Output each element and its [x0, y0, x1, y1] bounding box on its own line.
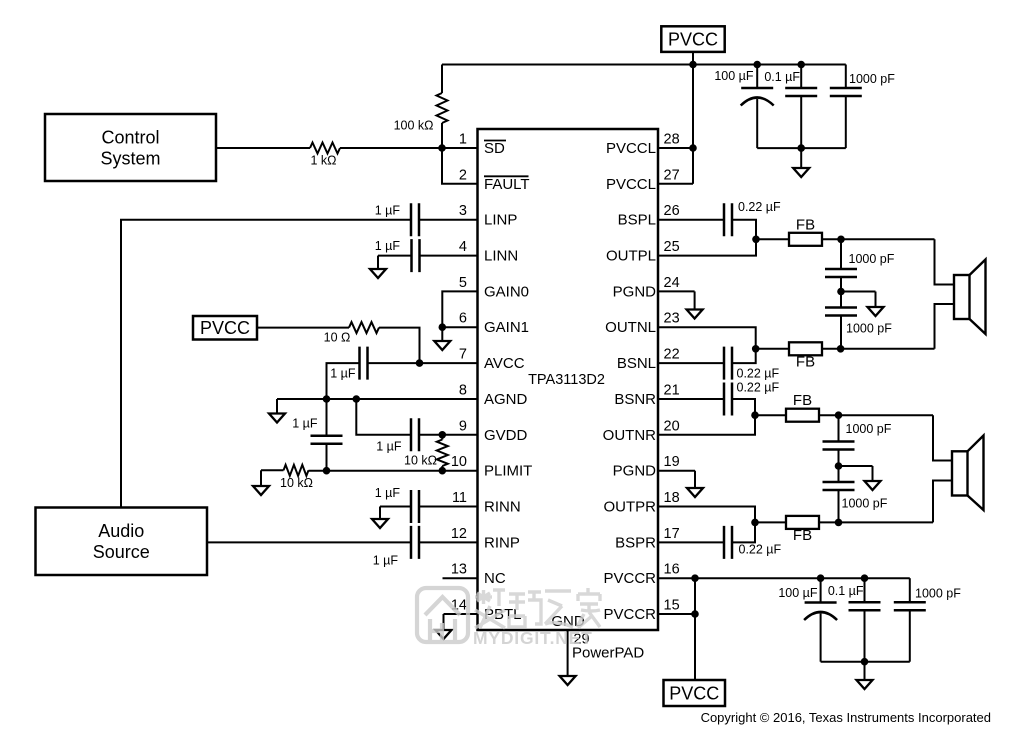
capacitor 1 &#181;F (RINN input) [375, 486, 419, 523]
svg-text:0.22 µF: 0.22 µF [737, 381, 780, 395]
capacitor 1000 pF (OUTNL snubber) [825, 308, 892, 336]
svg-text:1000 pF: 1000 pF [842, 497, 888, 511]
junction rail / 100uF [753, 61, 761, 69]
junction PVCCL node [689, 144, 697, 152]
svg-text:BSNL: BSNL [617, 355, 656, 372]
capacitor 100 &#181;F (PVCCR bulk) [778, 586, 837, 620]
wire 1000pF top stem [845, 65, 847, 89]
junction GVDD node [439, 431, 447, 439]
ground (GAIN pins) [434, 327, 450, 350]
capacitor 1000 pF (OUTPR snubber) [823, 482, 888, 511]
wire FB to snubber junction [822, 238, 935, 240]
svg-text:PVCCR: PVCCR [603, 570, 656, 587]
svg-text:OUTNL: OUTNL [605, 319, 656, 336]
svg-text:FB: FB [793, 392, 812, 409]
junction OUTNL / snubber [837, 345, 845, 353]
svg-text:13: 13 [451, 562, 467, 578]
svg-text:Audio: Audio [98, 521, 144, 541]
wire GVDD cap to pin 9 [419, 434, 478, 436]
svg-text:11: 11 [452, 490, 467, 506]
wire pin 20 OUTNR [658, 415, 755, 435]
wire PVCC flag stem [692, 52, 694, 65]
wire 0.1uF bottom stem [800, 96, 802, 148]
wire R snubber mid to ground [839, 465, 873, 467]
junction OUTNR / snubber [835, 411, 843, 419]
svg-text:PVCCR: PVCCR [603, 606, 656, 623]
junction AGND / 1uF branch [323, 395, 331, 403]
svg-text:100 µF: 100 µF [778, 586, 818, 600]
right channel speaker [952, 436, 984, 511]
wire FB to speaker wire (OUTPR) [819, 521, 933, 523]
svg-text:PVCC: PVCC [200, 318, 250, 338]
wire pin 22 BSNL to cap [658, 362, 724, 364]
wire pin 18 OUTPR [658, 507, 755, 523]
wire LINN cap to ground stub [378, 255, 412, 257]
wire BSNR cap to OUTNR node [732, 399, 755, 415]
junction OUTPL / snubber [837, 236, 845, 244]
wire pin 15 PVCCR [658, 613, 695, 615]
wire pin 12 RINP to cap [419, 541, 478, 543]
svg-text:BSPL: BSPL [618, 212, 656, 229]
svg-text:System: System [100, 148, 160, 168]
wire pin 28 PVCCL [658, 147, 693, 149]
wire 1000pF top stem (R) [909, 578, 911, 602]
wire decoupling bottom rail (R) [821, 661, 910, 663]
svg-text:100 µF: 100 µF [714, 69, 754, 83]
svg-text:TPA3113D2: TPA3113D2 [528, 372, 605, 388]
svg-text:3: 3 [459, 203, 467, 219]
svg-text:8: 8 [459, 383, 467, 399]
junction pin 15 / vertical [691, 610, 699, 618]
svg-text:PGND: PGND [613, 283, 657, 300]
junction PVCCR / 0.1uF [861, 574, 869, 582]
wire OUTPR to right speaker - [933, 481, 952, 523]
svg-text:15: 15 [664, 598, 680, 614]
junction GAIN0/GAIN1 [439, 323, 447, 331]
wire 0.1uF top stem (R) [864, 578, 866, 602]
Control System block [45, 114, 216, 181]
wire pin 17 BSPR to cap [658, 541, 724, 543]
wire RINN cap to ground stub [380, 506, 411, 508]
svg-text:OUTPL: OUTPL [606, 248, 656, 265]
wire PVCC vertical to PVCCL pins [692, 65, 694, 184]
junction PVCCR / 100uF [817, 574, 825, 582]
svg-text:0.22 µF: 0.22 µF [739, 543, 782, 557]
svg-text:FAULT: FAULT [484, 176, 530, 193]
svg-text:1 µF: 1 µF [373, 554, 399, 568]
svg-text:PVCCL: PVCCL [606, 176, 656, 193]
resistor 10 k&#937; (PLIMIT divider lower) [280, 465, 313, 490]
wire Control System to R 1k (pin 1 net) [216, 147, 310, 149]
junction OUTPR / snubber [835, 519, 843, 527]
wire R10k top stub [441, 435, 443, 440]
ground (PGND pin 19) [687, 471, 703, 497]
wire junction up to R 100k [441, 123, 443, 148]
capacitor 1 &#181;F (LINP input) [375, 203, 419, 236]
watermark MYDIGIT logo [417, 588, 468, 642]
svg-text:RINP: RINP [484, 534, 520, 551]
svg-text:FB: FB [796, 216, 815, 233]
svg-text:10 kΩ: 10 kΩ [404, 454, 437, 468]
capacitor 1000 pF (PVCCR) [894, 587, 961, 611]
ground (PowerPAD pin 29) [560, 630, 576, 685]
wire R 10 to AVCC junction [379, 328, 420, 364]
wire 100uF top stem (R) [820, 578, 822, 602]
capacitor 1 &#181;F (GVDD/PLIMIT filter) [292, 417, 342, 444]
wire pin 24 PGND [658, 290, 695, 292]
svg-text:23: 23 [664, 311, 680, 327]
svg-text:24: 24 [664, 275, 680, 291]
ground (PLIMIT) [253, 470, 269, 495]
wire OUTNL to left speaker - [935, 304, 955, 349]
ferrite bead FB (OUTPL) [789, 216, 822, 246]
svg-text:Copyright © 2016, Texas Instru: Copyright © 2016, Texas Instruments Inco… [701, 710, 991, 725]
wire 0.1uF top stem [800, 65, 802, 89]
wire pin 25 OUTPL [658, 239, 756, 255]
svg-text:0.22 µF: 0.22 µF [738, 200, 781, 214]
svg-text:1000 pF: 1000 pF [846, 322, 892, 336]
wire OUTNR node to FB [755, 414, 786, 416]
svg-text:1000 pF: 1000 pF [846, 422, 892, 436]
wire BSNL cap to OUTNL node [732, 349, 756, 363]
svg-text:0.1 µF: 0.1 µF [764, 70, 800, 84]
junction OUTPL node [752, 236, 760, 244]
capacitor 1 &#181;F (AVCC decoupling) [330, 347, 367, 381]
resistor 10 &#937; (AVCC filter) [324, 322, 379, 344]
svg-text:LINN: LINN [484, 248, 518, 265]
wire R 1k to pin 1 SD [340, 147, 478, 149]
svg-text:5: 5 [459, 275, 467, 291]
svg-text:1 µF: 1 µF [375, 486, 401, 500]
op-amp / class-D amplifier IC U1 TPA3113D2 body [478, 129, 659, 630]
svg-text:MYDIGIT.NET: MYDIGIT.NET [473, 628, 593, 648]
wire BSPR cap to OUTPR node [732, 522, 755, 542]
wire R snubber mid stem [838, 450, 840, 483]
wire pin 8 AGND [277, 398, 478, 400]
wire AGND junction down to cap [326, 399, 328, 436]
svg-text:6: 6 [459, 311, 467, 327]
svg-text:21: 21 [664, 383, 680, 399]
svg-text:1 µF: 1 µF [292, 417, 318, 431]
wire AVCC cap to AGND junction [327, 363, 360, 399]
junction rail / 0.1uF [797, 61, 805, 69]
junction R10k / PLIMIT line [439, 467, 447, 475]
capacitor 0.22 &#181;F (BSNL bootstrap) [724, 347, 780, 381]
svg-text:19: 19 [664, 454, 680, 470]
left channel speaker [954, 260, 986, 335]
capacitor 0.22 &#181;F (BSNR bootstrap) [724, 381, 780, 416]
svg-text:PVCC: PVCC [668, 29, 718, 49]
svg-text:18: 18 [664, 490, 680, 506]
wire top PVCC rail [442, 64, 846, 66]
PVCC supply flag (top) [661, 26, 724, 52]
wire snubber mid stem [840, 277, 842, 308]
ground (LINN) [370, 256, 386, 278]
svg-text:17: 17 [664, 526, 680, 542]
Audio Source block [36, 508, 208, 576]
svg-text:Source: Source [93, 542, 150, 562]
junction OUTNL node [752, 345, 760, 353]
capacitor 0.22 &#181;F (BSPR bootstrap) [724, 526, 782, 559]
wire pin 4 LINN to cap [420, 255, 478, 257]
wire pin 16 PVCCR rail [658, 577, 910, 579]
wire pin 3 LINP to cap [419, 219, 478, 221]
junction AGND / GVDD branch [353, 395, 361, 403]
wire OUTNL node to FB [756, 348, 789, 350]
svg-text:20: 20 [664, 418, 680, 434]
ground (PGND pin 24) [687, 291, 703, 318]
PVCC supply flag (left) [193, 316, 257, 340]
svg-text:0.1 µF: 0.1 µF [828, 584, 864, 598]
svg-text:12: 12 [451, 526, 467, 542]
wire pin 14 PBTL [444, 613, 478, 615]
wire FB to speaker wire (OUTNL) [822, 348, 935, 350]
svg-text:NC: NC [484, 570, 506, 587]
wire R10k bottom stub [441, 466, 443, 471]
wire 1000pF bottom stem (R) [909, 610, 911, 661]
svg-text:LINP: LINP [484, 212, 517, 229]
svg-text:1 µF: 1 µF [330, 367, 356, 381]
svg-text:4: 4 [459, 239, 467, 255]
wire RINP cap to Audio Source [207, 541, 411, 543]
svg-text:28: 28 [664, 132, 680, 148]
ground (RINN) [372, 507, 388, 529]
ground (L snubber) [868, 292, 884, 317]
svg-text:26: 26 [664, 203, 680, 219]
svg-text:GAIN0: GAIN0 [484, 283, 529, 300]
svg-text:100 kΩ: 100 kΩ [394, 119, 434, 133]
svg-text:1: 1 [459, 132, 467, 148]
wire cap down to PLIMIT line [326, 444, 328, 471]
capacitor 0.1 &#181;F (PVCCL) [764, 70, 817, 96]
capacitor 1 &#181;F (GVDD) [376, 418, 419, 453]
wire 100uF top stem [756, 65, 758, 89]
svg-text:1000 pF: 1000 pF [849, 72, 895, 86]
capacitor 1000 pF (PVCCL) [830, 72, 895, 96]
ground (PVCCL decoupling) [793, 148, 809, 177]
svg-text:0.22 µF: 0.22 µF [737, 367, 780, 381]
resistor 10 k&#937; (PLIMIT divider upper) [404, 440, 448, 468]
svg-text:1 kΩ: 1 kΩ [310, 154, 336, 168]
wire R snubber top stem [838, 415, 840, 441]
svg-text:PVCCL: PVCCL [606, 140, 656, 157]
svg-text:10 kΩ: 10 kΩ [280, 476, 313, 490]
svg-text:10 Ω: 10 Ω [324, 331, 351, 345]
svg-text:FB: FB [793, 527, 812, 544]
svg-text:GAIN1: GAIN1 [484, 319, 529, 336]
ferrite bead FB (OUTNR) [786, 392, 819, 422]
svg-text:22: 22 [664, 347, 680, 363]
svg-text:25: 25 [664, 239, 680, 255]
pin 1 SD active-low overline [484, 140, 506, 142]
svg-text:BSNR: BSNR [614, 391, 656, 408]
svg-text:9: 9 [459, 418, 467, 434]
junction cap / PLIMIT line [323, 467, 331, 475]
wire pin 10 PLIMIT [309, 470, 478, 472]
wire R 100k to PVCC rail [441, 65, 443, 94]
svg-text:OUTPR: OUTPR [604, 499, 657, 516]
wire 100uF bottom stem [756, 99, 758, 148]
capacitor 1000 pF (OUTNR snubber) [823, 422, 892, 450]
junction snubber mid [837, 288, 845, 296]
junction AVCC node [416, 359, 424, 367]
wire OUTNR to right speaker + [933, 415, 952, 460]
pin 2 FAULT active-low overline [484, 175, 529, 177]
PVCC supply flag (bottom) [664, 680, 726, 706]
svg-text:PVCC: PVCC [669, 683, 719, 703]
wire snubber top stem [840, 239, 842, 269]
wire PVCCR vertical to PVCC flag [694, 578, 696, 680]
junction OUTNR node [751, 411, 759, 419]
wire pin 19 PGND [658, 470, 695, 472]
wire pin 2 FAULT to junction [442, 148, 478, 184]
wire R snubber bottom stem [838, 490, 840, 522]
ground (PVCCR decoupling) [857, 662, 873, 689]
svg-text:10: 10 [451, 454, 467, 470]
wire pin 6 GAIN1 [442, 326, 477, 328]
svg-text:PLIMIT: PLIMIT [484, 463, 532, 480]
wire decoupling bottom rail [757, 147, 846, 149]
capacitor 0.22 &#181;F (BSPL bootstrap) [724, 200, 781, 236]
wire R10k to ground stub [261, 469, 284, 471]
capacitor 1000 pF (OUTPL snubber) [825, 252, 895, 277]
capacitor 100 &#181;F (PVCCL bulk) [714, 69, 773, 106]
ground (PBTL) [436, 614, 452, 639]
capacitor 1 &#181;F (LINN input) [375, 239, 420, 272]
wire pin 27 PVCCL [658, 183, 693, 185]
watermark chinese characters (shu ma zhi jia) [475, 588, 600, 628]
wire 100uF bottom stem (R) [820, 614, 822, 662]
wire OUTPL to left speaker + [935, 239, 955, 284]
wire pin 23 OUTNL [658, 327, 756, 349]
svg-text:FB: FB [796, 353, 815, 370]
wire AGND branch to GVDD cap [356, 399, 411, 435]
wire pin 11 RINN to cap [419, 506, 478, 508]
ferrite bead FB (OUTPR) [786, 516, 819, 544]
svg-text:AGND: AGND [484, 391, 528, 408]
wire LINP cap to audio left vertical [121, 220, 411, 508]
junction bottom rail / ground (R) [861, 658, 869, 666]
svg-text:27: 27 [664, 167, 680, 183]
svg-text:7: 7 [459, 347, 467, 363]
junction pin 1 / 100k / FAULT [438, 144, 446, 152]
svg-text:GVDD: GVDD [484, 427, 528, 444]
resistor 1 k&#937; (SD series) [310, 143, 340, 168]
wire OUTPL node to FB [756, 238, 789, 240]
wire pin 26 BSPL to cap [658, 219, 724, 221]
wire snubber bottom stem [840, 316, 842, 349]
wire pin 5 GAIN0 down to GAIN1 junction [442, 291, 477, 327]
svg-text:2: 2 [459, 167, 467, 183]
ground (AGND) [269, 399, 285, 423]
wire BSPL cap to OUTPL node [732, 220, 756, 240]
svg-text:1 µF: 1 µF [375, 239, 401, 253]
wire 0.1uF bottom stem (R) [864, 610, 866, 661]
svg-text:BSPR: BSPR [615, 534, 656, 551]
wire pin 13 NC stub [443, 577, 478, 579]
svg-text:SD: SD [484, 140, 505, 157]
wire 1000pF bottom stem [845, 96, 847, 148]
junction PVCC rail / stem [689, 61, 697, 69]
svg-text:RINN: RINN [484, 499, 521, 516]
junction R snubber mid [835, 462, 843, 470]
svg-text:1000 pF: 1000 pF [915, 587, 961, 601]
resistor 100 k&#937; (pull-up) [394, 93, 448, 133]
wire snubber mid to ground [841, 291, 876, 293]
junction bottom rail / ground [797, 144, 805, 152]
svg-text:1 µF: 1 µF [375, 204, 401, 218]
ferrite bead FB (OUTNL) [789, 342, 822, 370]
svg-text:16: 16 [664, 562, 680, 578]
wire pin 21 BSNR to cap [658, 398, 724, 400]
svg-text:PGND: PGND [613, 463, 657, 480]
capacitor 0.1 &#181;F (PVCCR) [828, 584, 881, 610]
wire OUTPR node to FB [755, 521, 786, 523]
wire PVCC flag to R 10 [257, 327, 349, 329]
ground (R snubber) [865, 466, 881, 490]
junction PVCCR / vertical [691, 574, 699, 582]
svg-text:OUTNR: OUTNR [603, 427, 656, 444]
svg-text:Control: Control [101, 127, 159, 147]
wire pin 7 AVCC to cap [368, 362, 478, 364]
wire FB to speaker wire (OUTNR) [819, 414, 933, 416]
capacitor 1 &#181;F (RINP input) [373, 526, 419, 568]
svg-text:1000 pF: 1000 pF [849, 252, 895, 266]
svg-text:AVCC: AVCC [484, 355, 525, 372]
junction OUTPR node [751, 519, 759, 527]
svg-text:1 µF: 1 µF [376, 440, 402, 454]
